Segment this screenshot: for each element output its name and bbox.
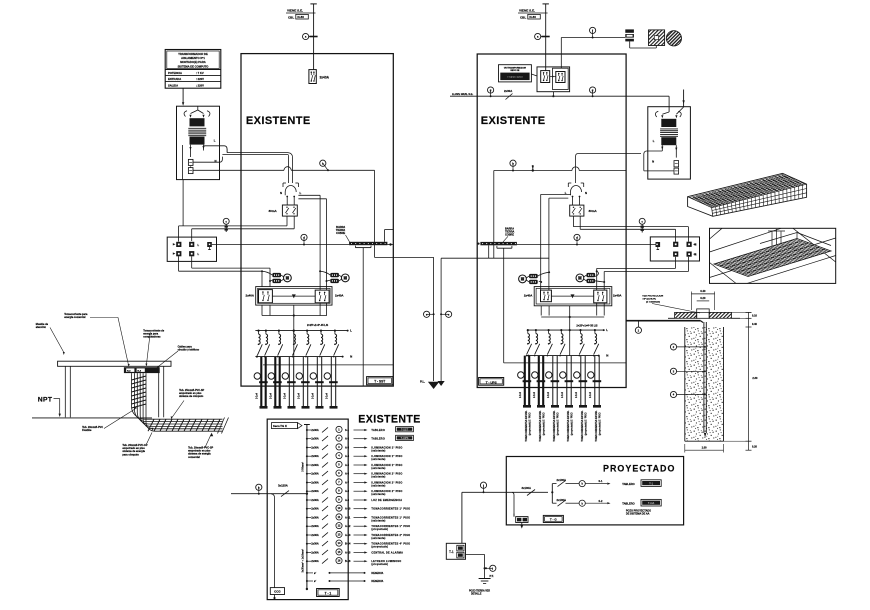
panel T-1 symbol bottom — [446, 492, 465, 559]
svg-text:TOMACORRIENTES ESTAB.: TOMACORRIENTES ESTAB. — [553, 410, 556, 441]
svg-text:P.T.: P.T. — [490, 574, 494, 578]
svg-text:P.L.: P.L. — [420, 380, 425, 384]
panel schedule box T-1 — [267, 419, 348, 599]
transformer U1 (aislamiento) left — [177, 106, 220, 179]
svg-text:NPT: NPT — [38, 397, 53, 404]
proyectado feed and branches — [506, 478, 661, 516]
cable marker T-1 feed — [480, 482, 486, 493]
schedule rows — [306, 426, 414, 566]
annotation tub energia comercial — [188, 447, 213, 459]
svg-text:computadoras: computadoras — [143, 336, 161, 339]
wires bracket L to right breaker left panel — [298, 195, 326, 290]
cable marker on right feeder — [535, 33, 541, 39]
wire left bar to middle drop — [375, 257, 434, 381]
svg-text:SECO DE: SECO DE — [510, 70, 520, 72]
svg-text:TABLERO: TABLERO — [371, 429, 385, 432]
svg-text:2x30A: 2x30A — [311, 508, 319, 511]
svg-text:N-30: N-30 — [297, 15, 304, 19]
desk cross-section detail — [32, 361, 171, 418]
annotation tub flexible — [82, 426, 103, 432]
node VIENE S.E. left feeder — [286, 4, 317, 70]
cable marker top right — [590, 27, 596, 38]
svg-text:(S 75x50x25): (S 75x50x25) — [646, 302, 660, 304]
svg-text:3x125A: 3x125A — [278, 484, 288, 488]
svg-text:2x40A: 2x40A — [335, 294, 344, 298]
svg-text:3x35mm² + 1x16mm²: 3x35mm² + 1x16mm² — [301, 549, 305, 573]
svg-text:S-2: S-2 — [599, 500, 604, 503]
cable marker schedule feed — [256, 484, 262, 495]
svg-text:TOMACORRIENTES ESTAB.: TOMACORRIENTES ESTAB. — [525, 410, 528, 441]
svg-text:ø´: ø´ — [314, 580, 316, 583]
svg-text:TOMACORRIENTES ESTAB.: TOMACORRIENTES ESTAB. — [581, 410, 584, 441]
wire neutral bus right y=170.5 with hop — [494, 167, 626, 258]
distribution rails left (T-SST) — [254, 329, 352, 409]
svg-text:RESERVA: RESERVA — [371, 580, 383, 583]
wire spec table to transformer — [182, 88, 184, 106]
svg-text:para cómputo: para cómputo — [122, 453, 139, 456]
svg-text:0.20: 0.20 — [752, 446, 757, 449]
wires breakers to L rail left — [262, 303, 329, 357]
cable marker bus right 1 — [488, 87, 494, 97]
svg-text:TABLERO: TABLERO — [371, 438, 385, 441]
luminaire fixture isometric 2 in ceiling — [710, 228, 836, 283]
schedule bus side labels — [301, 462, 305, 573]
node N-L terminal left — [280, 183, 302, 205]
schedule reserve rows — [306, 572, 384, 583]
svg-text:2x30A: 2x30A — [504, 89, 512, 93]
svg-text:TABLERO: TABLERO — [622, 502, 634, 506]
svg-text:A-11: A-11 — [345, 516, 351, 519]
feeder arrow into right transformer — [682, 90, 684, 108]
wire tap down to y170 right — [532, 165, 534, 172]
cable marker bus right mid — [510, 160, 516, 171]
svg-text:TOMACORRIENTES ESTAB.: TOMACORRIENTES ESTAB. — [595, 410, 598, 441]
transformer spec table left — [165, 50, 221, 89]
wire transformer L to junction (two lines) — [193, 146, 293, 183]
svg-text:(existente): (existente) — [371, 476, 385, 479]
svg-text:atención: atención — [36, 326, 47, 329]
svg-text:2x40A: 2x40A — [245, 294, 254, 298]
svg-text:(existente): (existente) — [371, 537, 385, 540]
svg-text:L: L — [653, 139, 655, 143]
hatched square symbol (caja) — [649, 30, 665, 46]
svg-text:CBL: CBL — [288, 15, 294, 19]
svg-text:2x30A: 2x30A — [311, 490, 319, 493]
label box T-SST — [367, 377, 393, 385]
svg-text:TOMACORRIENTES 1° PISO: TOMACORRIENTES 1° PISO — [371, 508, 410, 511]
panel enclosure EXISTENTE right — [477, 54, 626, 388]
cable marker on ground wire left — [301, 234, 307, 245]
cable marker on ground wire right — [574, 234, 580, 245]
svg-text:2x30A: 2x30A — [311, 429, 319, 432]
svg-text:A-15: A-15 — [345, 551, 351, 554]
svg-text:(proyectado) 1° PISO: (proyectado) 1° PISO — [570, 412, 573, 435]
annotation tomacorriente comercial — [64, 313, 88, 319]
svg-text:L: L — [606, 328, 608, 332]
svg-text:T - UPS: T - UPS — [486, 380, 497, 384]
svg-text:0.20: 0.20 — [700, 296, 706, 300]
svg-text:T - SST: T - SST — [374, 380, 385, 384]
label box T-G — [543, 515, 563, 522]
svg-text:2-1x4: 2-1x4 — [547, 391, 550, 398]
svg-text:A-10: A-10 — [345, 508, 351, 511]
wire inner bottom left — [263, 364, 393, 366]
svg-text:2-1x4: 2-1x4 — [589, 391, 592, 398]
svg-text:N: N — [585, 191, 587, 195]
svg-text:2x30A: 2x30A — [311, 438, 319, 441]
conduit bundle elbow — [132, 373, 229, 433]
svg-text:2x30A: 2x30A — [311, 534, 319, 537]
svg-text:1.00: 1.00 — [702, 445, 708, 449]
svg-text:2-1x4: 2-1x4 — [256, 392, 259, 399]
svg-text:SISTEMA DE COMPUTO: SISTEMA DE COMPUTO — [178, 64, 209, 68]
annotation mueble — [36, 323, 49, 329]
ground bar left — [336, 226, 393, 386]
svg-text:(existente): (existente) — [371, 519, 385, 522]
cable marker on RCD pair left — [223, 218, 229, 232]
svg-text:N: N — [652, 160, 654, 164]
svg-text:N: N — [606, 354, 608, 358]
svg-text:L: L — [300, 191, 302, 195]
fuse F2 right transformer neutral — [674, 161, 679, 175]
svg-text:A-9: A-9 — [345, 499, 350, 502]
svg-text:RESERVA: RESERVA — [371, 572, 383, 575]
svg-text:2-1x4: 2-1x4 — [575, 391, 578, 398]
svg-text:T-1: T-1 — [449, 550, 454, 554]
wires RCD to junction box left — [179, 216, 295, 241]
cable marker pozo wire — [635, 321, 641, 334]
node VIENE S.E. right feeder — [518, 4, 549, 71]
hatched circle symbol (medidor) — [666, 31, 681, 46]
svg-text:2x30A: 2x30A — [311, 560, 319, 563]
svg-text:3x100A: 3x100A — [522, 486, 531, 490]
svg-text:(existente): (existente) — [371, 458, 385, 461]
svg-text:TRANSFORMADOR DE: TRANSFORMADOR DE — [178, 52, 208, 56]
fuse F1 left transformer neutral — [188, 139, 216, 174]
svg-text:30mA: 30mA — [589, 209, 598, 213]
svg-text:(proyectado) 1° PISO: (proyectado) 1° PISO — [556, 412, 559, 435]
svg-text:: 220V: : 220V — [196, 77, 204, 81]
fuse group right A — [519, 274, 538, 284]
svg-text:Secc.TG K: Secc.TG K — [273, 424, 287, 428]
wires junction box to distribution left — [179, 256, 270, 286]
svg-text:2x30A: 2x30A — [311, 499, 319, 502]
distribution rails right (T-UPS) — [518, 328, 609, 408]
svg-text:(proyectado) 1° PISO: (proyectado) 1° PISO — [528, 412, 531, 435]
cable marker on left feeder — [303, 33, 309, 39]
svg-text:2x30A: 2x30A — [311, 447, 319, 450]
svg-text:0.10: 0.10 — [752, 315, 757, 318]
svg-text:CENTRAL DE ALARMA: CENTRAL DE ALARMA — [371, 552, 403, 555]
svg-text:(proyectado) 1° PISO: (proyectado) 1° PISO — [584, 412, 587, 435]
wire T-1 to PROYECTADO — [462, 491, 506, 493]
breaker box 2x40A pair left — [245, 287, 344, 306]
svg-text:T-SST: T-SST — [401, 427, 409, 431]
svg-text:A-13: A-13 — [345, 534, 351, 537]
junction box J1 left — [167, 237, 216, 261]
schedule main bus — [304, 425, 310, 591]
annotation tub energia computo — [122, 444, 147, 456]
cable marker ground wire — [485, 565, 496, 571]
svg-text:LUZ DE EMERGENCIA: LUZ DE EMERGENCIA — [371, 499, 402, 502]
cable marker on neutral bus — [320, 160, 329, 171]
annotation cables circuito — [178, 346, 200, 352]
node L-N terminal right — [565, 183, 587, 205]
under-desk outlet box — [124, 367, 160, 373]
wire transformer case ground down — [182, 145, 185, 226]
svg-text:DETALLE: DETALLE — [471, 592, 482, 595]
svg-text:circuito y teléfono: circuito y teléfono — [178, 349, 200, 352]
svg-text:0.40: 0.40 — [700, 289, 706, 293]
circuit labels under right panel — [525, 410, 601, 441]
svg-text:B-14: B-14 — [345, 543, 351, 546]
svg-text:2-1x4: 2-1x4 — [312, 392, 315, 399]
svg-text:S-1: S-1 — [345, 429, 350, 432]
svg-text:3x40A: 3x40A — [320, 76, 330, 80]
wire panel to pozo tierra — [626, 321, 703, 323]
wire y258 to right breakers — [489, 257, 549, 259]
label box T-UPS — [479, 378, 504, 386]
svg-text:2x30A: 2x30A — [311, 473, 319, 476]
schedule header label — [272, 423, 303, 429]
svg-text:2x30A: 2x30A — [311, 517, 319, 520]
svg-text:S-1: S-1 — [599, 480, 604, 483]
wire neutral bus y=170.3 with hop — [191, 166, 375, 257]
svg-text:N: N — [695, 252, 697, 256]
svg-text:A-12: A-12 — [345, 525, 351, 528]
svg-text:COBRE: COBRE — [336, 232, 345, 235]
svg-text:TOMACORRIENTES ESTAB.: TOMACORRIENTES ESTAB. — [539, 410, 542, 441]
fuse group left A — [272, 273, 291, 283]
ground bar right — [477, 227, 626, 363]
svg-text:A-4: A-4 — [345, 455, 350, 458]
svg-text:TOMACORRIENTES ESTAB.: TOMACORRIENTES ESTAB. — [567, 410, 570, 441]
schedule feed 3x125A — [231, 484, 308, 588]
svg-text:VIENE S.E.: VIENE S.E. — [519, 8, 535, 12]
svg-text:2x30A: 2x30A — [311, 482, 319, 485]
svg-text:MONTADO(E) PARA: MONTADO(E) PARA — [180, 60, 205, 64]
svg-text:2-1x4: 2-1x4 — [533, 391, 536, 398]
svg-text:EXISTENTE: EXISTENTE — [246, 115, 311, 127]
node NPT label — [38, 397, 61, 418]
ground symbol P.T. — [469, 574, 494, 595]
wire top right to legend — [561, 38, 625, 69]
svg-text:L: L — [350, 329, 352, 333]
panel enclosure EXISTENTE left — [241, 54, 393, 387]
svg-text:7.5KVA 220V: 7.5KVA 220V — [507, 75, 523, 79]
svg-text:2x30A: 2x30A — [311, 552, 319, 555]
svg-text:UN TRANSFORMADOR: UN TRANSFORMADOR — [504, 66, 527, 69]
svg-text:T-UPS: T-UPS — [401, 436, 409, 440]
svg-text:2×25²+1×4²-35 L/S: 2×25²+1×4²-35 L/S — [576, 324, 598, 328]
cable marker bus right 2 — [590, 87, 596, 97]
svg-text:: 220V: : 220V — [196, 83, 204, 87]
svg-text:T-1: T-1 — [649, 481, 653, 485]
svg-text:A-3: A-3 — [345, 446, 350, 449]
svg-text:EXISTENTE: EXISTENTE — [481, 115, 546, 127]
wire junction box to ground bar left — [212, 244, 349, 246]
svg-text:comercial: comercial — [188, 456, 200, 459]
pole fuse cutout — [625, 29, 656, 48]
breaker 3x40A left — [309, 70, 330, 84]
svg-text:CBL: CBL — [520, 15, 526, 19]
svg-text:(proyectado): (proyectado) — [371, 546, 388, 549]
wires breakers to L rail right — [541, 303, 604, 356]
svg-text:B-16: B-16 — [345, 560, 351, 563]
wires bracket L right to breakers — [541, 194, 571, 290]
svg-text:(existente): (existente) — [371, 484, 385, 487]
svg-text:ø´: ø´ — [314, 572, 316, 575]
svg-text:2×25²+1×4²-35 L/S: 2×25²+1×4²-35 L/S — [307, 323, 329, 327]
svg-text:(existente): (existente) — [371, 467, 385, 470]
svg-text:T-CA: T-CA — [648, 501, 655, 505]
svg-text:2-1x4: 2-1x4 — [270, 392, 273, 399]
svg-text:VIENE S.E.: VIENE S.E. — [287, 8, 303, 12]
wires RCD right to junction box — [573, 216, 688, 242]
svg-text:COBRE: COBRE — [505, 233, 514, 236]
wires right transformer to RCD — [576, 151, 674, 183]
svg-text:N: N — [350, 355, 352, 359]
transformer spec label right — [499, 65, 538, 82]
svg-text:N: N — [280, 191, 282, 195]
svg-text:30mA: 30mA — [269, 209, 278, 213]
svg-text:2-1x4: 2-1x4 — [519, 391, 522, 398]
svg-text:N-30: N-30 — [529, 15, 536, 19]
svg-text:0.40: 0.40 — [752, 323, 757, 326]
svg-text:(proyectado) 1° PISO: (proyectado) 1° PISO — [598, 412, 601, 435]
wire junction box right to ground bar — [626, 244, 655, 246]
svg-text:T - G: T - G — [550, 518, 557, 522]
svg-text:(existente): (existente) — [371, 493, 385, 496]
svg-text:TABLERO: TABLERO — [622, 482, 634, 486]
svg-text:A-5: A-5 — [345, 464, 350, 467]
svg-text:2x40A: 2x40A — [524, 294, 533, 298]
CT dark box proyectado — [514, 514, 528, 529]
PROYECTADO enclosure — [506, 457, 683, 525]
junction box J2 right — [650, 237, 699, 261]
breaker box 2x40A pair right — [524, 287, 623, 306]
svg-text:N: N — [695, 243, 697, 247]
svg-text:2x30A: 2x30A — [311, 525, 319, 528]
svg-text:LLAVE GRAL S.E.: LLAVE GRAL S.E. — [452, 93, 473, 96]
svg-text:sistema de cómputo: sistema de cómputo — [179, 395, 204, 398]
svg-text:DE SISTEMA DE AA: DE SISTEMA DE AA — [626, 513, 650, 516]
svg-text:2x30A: 2x30A — [311, 455, 319, 458]
wire right bar to middle drop — [441, 258, 489, 381]
svg-text:POTENCIA: POTENCIA — [168, 71, 182, 75]
svg-text:2x30A: 2x30A — [311, 543, 319, 546]
CCG box — [270, 588, 284, 600]
svg-text:2-1x4: 2-1x4 — [284, 392, 287, 399]
fuse group right B — [576, 273, 595, 283]
svg-text:VER PROYECCION: VER PROYECCION — [642, 296, 663, 298]
svg-text:(proyectado): (proyectado) — [371, 563, 388, 566]
svg-text:2.30: 2.30 — [752, 376, 758, 380]
svg-text:: 7 KV: : 7 KV — [196, 71, 204, 75]
svg-text:SALIDA: SALIDA — [168, 83, 178, 87]
RCD 30mA left — [269, 205, 298, 216]
luminaire fixture isometric 1 — [688, 173, 807, 216]
svg-text:Flexible: Flexible — [82, 429, 92, 432]
cable marker on RCD pair right — [639, 218, 645, 232]
svg-text:(existente): (existente) — [371, 449, 385, 452]
wires junction box right to distribution — [597, 257, 689, 290]
annotation tub 25mm — [179, 389, 204, 398]
svg-text:AISLAMIENTO N°1: AISLAMIENTO N°1 — [181, 56, 205, 60]
cable markers middle drops — [424, 311, 435, 317]
svg-text:L: L — [214, 139, 216, 143]
svg-text:2-1x4: 2-1x4 — [561, 391, 564, 398]
svg-text:A-7: A-7 — [345, 481, 350, 484]
svg-text:CCG: CCG — [274, 590, 281, 594]
svg-text:TIP (D) W.PE: TIP (D) W.PE — [642, 299, 656, 301]
node P.L. arrows — [420, 380, 445, 389]
svg-text:A-6: A-6 — [345, 473, 350, 476]
annotation tomacorriente computo — [143, 330, 164, 339]
svg-text:3 50mm²: 3 50mm² — [301, 462, 305, 472]
svg-text:2x30A: 2x30A — [311, 464, 319, 467]
svg-text:POZO TIERRA VER: POZO TIERRA VER — [469, 590, 490, 593]
label box T-1 schedule — [317, 589, 340, 597]
bus right y=96 — [450, 89, 669, 100]
svg-text:energía comercial: energía comercial — [64, 316, 86, 319]
pozo tierra well detail — [642, 289, 758, 452]
svg-text:PROYECTADO: PROYECTADO — [603, 464, 675, 474]
svg-text:(proyectado): (proyectado) — [371, 528, 388, 531]
svg-text:(proyectado) 1° PISO: (proyectado) 1° PISO — [542, 412, 545, 435]
transformer U2 (seco) right — [648, 107, 691, 179]
breaker assembly right top — [537, 67, 570, 96]
wire T-1 to ground — [466, 555, 486, 579]
RCD 30mA right — [570, 205, 598, 216]
wire bus to transformer right — [668, 96, 670, 112]
svg-text:2-1x4: 2-1x4 — [298, 392, 301, 399]
fuse group left B — [330, 273, 349, 283]
svg-text:2-1x4: 2-1x4 — [326, 392, 329, 399]
svg-text:ENTRADA: ENTRADA — [168, 77, 181, 81]
svg-text:2x40A: 2x40A — [613, 294, 622, 298]
svg-text:A-8: A-8 — [345, 490, 350, 493]
svg-text:EXISTENTE: EXISTENTE — [358, 414, 420, 426]
svg-text:A-2: A-2 — [345, 438, 350, 441]
svg-text:T - 1: T - 1 — [325, 592, 332, 596]
